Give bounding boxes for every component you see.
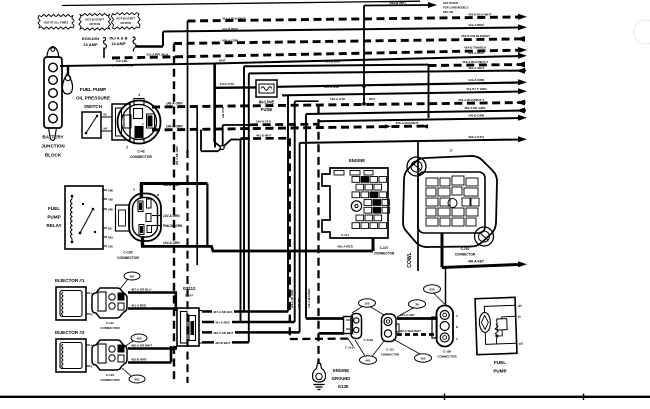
svg-text:C: C <box>456 314 458 318</box>
svg-text:17: 17 <box>449 149 453 153</box>
svg-text:461: 461 <box>134 378 139 382</box>
svg-text:140-B GTH: 140-B GTH <box>256 120 271 124</box>
svg-text:C-113A: C-113A <box>364 338 375 342</box>
svg-text:B: B <box>91 313 93 317</box>
svg-text:39: 39 <box>415 303 419 307</box>
svg-text:OR RUN: OR RUN <box>89 22 100 26</box>
svg-text:CONNECTOR: CONNECTOR <box>117 256 139 260</box>
svg-text:C-147: C-147 <box>185 294 194 298</box>
svg-text:140-A GTH: 140-A GTH <box>330 97 345 101</box>
svg-text:C-113: C-113 <box>386 348 394 352</box>
svg-text:SWITCH: SWITCH <box>84 104 103 109</box>
svg-text:A: A <box>133 188 135 192</box>
svg-text:BLOCK: BLOCK <box>45 153 62 158</box>
svg-text:140-U GTH: 140-U GTH <box>220 82 235 86</box>
svg-text:NC: NC <box>104 114 108 117</box>
svg-text:INJECTOR #1: INJECTOR #1 <box>55 278 85 283</box>
svg-text:CONNECTOR: CONNECTOR <box>130 155 152 159</box>
svg-text:453-B OR BLK/WHT: 453-B OR BLK/WHT <box>461 34 490 38</box>
svg-text:403-A GTH: 403-A GTH <box>468 135 484 139</box>
svg-text:CONNECTOR: CONNECTOR <box>455 253 476 257</box>
svg-text:402-A BLK/WHT-T: 402-A BLK/WHT-T <box>458 98 484 102</box>
svg-text:451-B GRL: 451-B GRL <box>325 60 341 64</box>
svg-text:467-A OR BLK: 467-A OR BLK <box>213 310 234 314</box>
svg-text:453-B WHT: 453-B WHT <box>390 1 407 5</box>
svg-text:FUEL: FUEL <box>48 206 60 211</box>
svg-text:INJ A & B: INJ A & B <box>110 35 128 40</box>
svg-text:OIL PRESSURE: OIL PRESSURE <box>76 96 110 101</box>
svg-text:451-A BLK/WHT: 451-A BLK/WHT <box>222 17 246 21</box>
svg-text:450-A DK GRN: 450-A DK GRN <box>464 106 486 110</box>
svg-text:452-B WHT: 452-B WHT <box>131 358 147 362</box>
svg-text:441-B WHT: 441-B WHT <box>256 133 271 137</box>
svg-text:460-A BLK/WHT: 460-A BLK/WHT <box>399 329 421 333</box>
svg-text:IN-LINE: IN-LINE <box>259 100 275 105</box>
svg-text:404-A BLK/WHT-T: 404-A BLK/WHT-T <box>462 60 488 64</box>
svg-text:BATTERY: BATTERY <box>42 135 63 140</box>
svg-text:450: 450 <box>519 342 524 346</box>
svg-text:D81: D81 <box>108 235 113 239</box>
svg-text:461: 461 <box>365 359 370 363</box>
svg-text:CONNECTOR: CONNECTOR <box>374 252 395 256</box>
svg-text:120: 120 <box>517 304 522 308</box>
svg-text:NO: NO <box>104 128 108 131</box>
svg-text:460-A OR WHT: 460-A OR WHT <box>131 344 152 348</box>
svg-text:CONNECTOR: CONNECTOR <box>100 326 120 330</box>
svg-text:G135: G135 <box>338 384 349 389</box>
svg-text:400-A KEY: 400-A KEY <box>468 260 485 264</box>
svg-text:A: A <box>456 337 458 341</box>
svg-text:CONNECTOR: CONNECTOR <box>381 353 400 357</box>
svg-text:140-B ORN: 140-B ORN <box>468 113 485 117</box>
svg-text:439-A ORN: 439-A ORN <box>222 39 239 43</box>
svg-text:OR RUN: OR RUN <box>120 21 131 25</box>
svg-text:B: B <box>157 193 159 197</box>
svg-text:A85: A85 <box>108 197 113 201</box>
svg-text:HOT IN RUN: HOT IN RUN <box>443 1 458 5</box>
svg-text:C-42: C-42 <box>137 150 144 154</box>
svg-text:JUNCTION: JUNCTION <box>41 144 65 149</box>
svg-text:441-B RED: 441-B RED <box>222 27 239 31</box>
svg-text:GT112: GT112 <box>183 286 196 291</box>
svg-text:WHT: WHT <box>369 97 375 101</box>
svg-text:D8: D8 <box>108 226 112 230</box>
svg-text:461-A DK GRN: 461-A DK GRN <box>175 146 179 165</box>
svg-text:RELAY: RELAY <box>46 223 61 228</box>
svg-text:465-A PNK: 465-A PNK <box>163 183 180 187</box>
svg-text:PUMP: PUMP <box>47 215 60 220</box>
svg-text:4: 4 <box>138 93 140 97</box>
svg-text:GROUND: GROUND <box>332 376 351 381</box>
svg-text:FOR CARB MODELS: FOR CARB MODELS <box>443 6 469 10</box>
svg-text:453-B BLK/WHT: 453-B BLK/WHT <box>468 12 492 16</box>
svg-text:452-B WHT: 452-B WHT <box>215 341 230 345</box>
svg-text:C-108: C-108 <box>443 350 452 354</box>
svg-text:120-A GRY: 120-A GRY <box>400 313 415 317</box>
svg-text:B: B <box>456 325 458 329</box>
svg-text:INJECTOR #2: INJECTOR #2 <box>55 330 85 335</box>
svg-text:105: 105 <box>420 357 425 361</box>
svg-text:441-A RED: 441-A RED <box>215 321 230 325</box>
svg-text:DRL-ON: DRL-ON <box>443 10 453 14</box>
svg-text:FUEL: FUEL <box>494 360 506 365</box>
svg-text:140-A ORN: 140-A ORN <box>166 102 183 106</box>
svg-text:ENGINE: ENGINE <box>333 368 349 373</box>
svg-text:C-107: C-107 <box>380 246 389 250</box>
svg-text:C-115: C-115 <box>106 321 114 325</box>
svg-text:4-B GTH: 4-B GTH <box>297 297 301 308</box>
svg-text:A86: A86 <box>108 188 113 192</box>
svg-text:460: 460 <box>136 337 141 341</box>
svg-text:105: 105 <box>364 302 369 306</box>
svg-text:450-A WHT: 450-A WHT <box>324 85 340 89</box>
svg-text:461-A DK GRN: 461-A DK GRN <box>290 290 294 308</box>
svg-text:467-A OR BLU: 467-A OR BLU <box>131 288 151 292</box>
svg-text:WHT: WHT <box>219 59 226 63</box>
svg-text:CONNECTOR: CONNECTOR <box>100 378 120 382</box>
svg-text:471-B LT GRN: 471-B LT GRN <box>466 87 487 91</box>
svg-text:4-B GTH: 4-B GTH <box>221 107 225 118</box>
svg-text:(PPL/BLK GRN): (PPL/BLK GRN) <box>112 64 133 68</box>
svg-text:FUSE: FUSE <box>261 107 273 112</box>
svg-text:ENGINE: ENGINE <box>349 158 365 163</box>
svg-text:441-A RED: 441-A RED <box>468 23 484 27</box>
svg-text:431-A PPL/BLK: 431-A PPL/BLK <box>146 53 169 57</box>
svg-text:COWL: COWL <box>407 252 413 267</box>
svg-text:424-A RED: 424-A RED <box>468 51 484 55</box>
svg-text:HOT IN START: HOT IN START <box>85 18 104 22</box>
svg-text:466-A BLK/WHT: 466-A BLK/WHT <box>396 121 419 125</box>
svg-text:636: 636 <box>429 288 434 292</box>
svg-text:C-114: C-114 <box>341 233 349 237</box>
svg-text:10 AMP: 10 AMP <box>111 41 126 46</box>
svg-text:A50: A50 <box>108 244 113 248</box>
svg-text:C-100: C-100 <box>123 251 132 255</box>
svg-text:C-116: C-116 <box>106 373 114 377</box>
svg-text:B: B <box>91 365 93 369</box>
svg-text:PUMP: PUMP <box>493 369 506 374</box>
svg-text:441-A RED: 441-A RED <box>131 304 147 308</box>
svg-text:121-A ORN: 121-A ORN <box>468 78 485 82</box>
svg-text:2-B GRL: 2-B GRL <box>116 59 128 63</box>
svg-text:14V-A ORN: 14V-A ORN <box>163 241 180 245</box>
svg-text:441-A BLK/WHT: 441-A BLK/WHT <box>307 288 311 308</box>
svg-text:481-A RED: 481-A RED <box>337 245 353 249</box>
svg-text:481-A WHT: 481-A WHT <box>468 66 484 70</box>
svg-text:467: 467 <box>129 275 134 279</box>
svg-text:424-B TAN/BLK: 424-B TAN/BLK <box>464 45 487 49</box>
svg-text:2: 2 <box>126 146 128 150</box>
svg-text:HOT IN START: HOT IN START <box>116 17 135 21</box>
svg-text:10 AMP: 10 AMP <box>83 42 98 47</box>
svg-text:C-114A: C-114A <box>345 346 356 350</box>
svg-text:C-102: C-102 <box>461 247 470 251</box>
svg-text:CONNECTOR: CONNECTOR <box>437 355 457 359</box>
svg-text:A80: A80 <box>108 207 113 211</box>
svg-text:FUEL PUMP: FUEL PUMP <box>80 87 106 92</box>
svg-text:ECM-IGN: ECM-IGN <box>82 36 99 41</box>
svg-text:HOT AT ALL TIMES: HOT AT ALL TIMES <box>44 20 69 24</box>
svg-text:460-A OR WHT: 460-A OR WHT <box>213 331 234 335</box>
svg-text:12V-A GRN: 12V-A GRN <box>163 214 180 218</box>
